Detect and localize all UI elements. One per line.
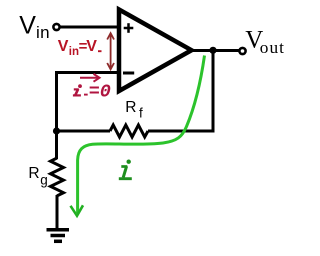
- op-amp U1: [119, 10, 192, 92]
- junction output node: [209, 47, 216, 54]
- resistor Rg: [51, 158, 64, 196]
- wire feedback bottom right segment: [148, 130, 215, 133]
- terminal Vout: [239, 48, 245, 54]
- svg-text:out: out: [260, 38, 285, 57]
- wire feedback bottom left segment: [57, 130, 111, 133]
- label Vout: [245, 27, 285, 58]
- wire feedback right vertical: [212, 51, 215, 133]
- svg-text:V: V: [58, 38, 69, 55]
- terminal Vin: [53, 24, 59, 30]
- svg-text:in: in: [69, 46, 79, 58]
- svg-text:f: f: [139, 106, 143, 121]
- svg-text:R: R: [125, 99, 136, 116]
- resistor Rf: [110, 125, 148, 137]
- svg-text:V: V: [19, 12, 36, 40]
- wire Vin to op-amp non-inverting input: [60, 26, 119, 29]
- minus marker at inverting input: [123, 72, 134, 75]
- svg-text:V: V: [86, 38, 97, 55]
- label Vin: [19, 12, 50, 43]
- svg-text:=0: =0: [89, 81, 111, 102]
- junction feedback node: [53, 127, 60, 134]
- annotation i-=0 (crimson) with over-arrow: [73, 84, 88, 95]
- svg-text:g: g: [40, 173, 48, 188]
- wire left vertical (inverting node down to feedback and Rg): [55, 71, 58, 159]
- label Rg: [28, 165, 47, 188]
- label Rf: [125, 99, 143, 121]
- annotation Vin=V- subscript minus: [98, 50, 102, 52]
- plus marker at non-inverting input: [124, 23, 134, 33]
- svg-text:in: in: [36, 23, 50, 42]
- wire Rg to ground: [56, 195, 59, 229]
- label i (green): [119, 160, 132, 179]
- svg-text:R: R: [28, 165, 39, 182]
- wire inverting input: [57, 71, 120, 74]
- annotation current arrow i (green curve): [78, 56, 205, 214]
- annotation double-headed arrow (dark red): [107, 33, 114, 69]
- ground: [47, 230, 70, 242]
- annotation Vin=V- (red): [58, 38, 98, 58]
- wire output: [191, 49, 239, 52]
